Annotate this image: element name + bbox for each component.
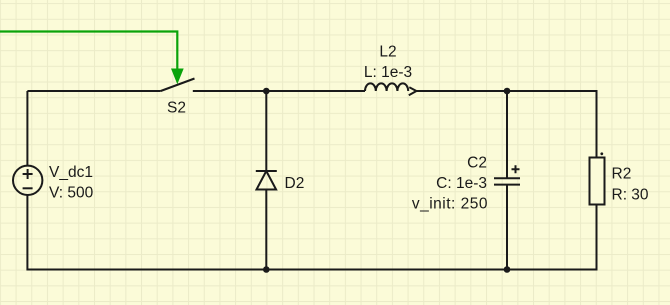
wire: top bus from V_dc1 to S2 left contact	[27, 90, 160, 92]
wire: V_dc1 bottom lead	[26, 195, 28, 271]
resistor R2	[590, 152, 605, 204]
node: junction D2/bottom	[263, 266, 270, 273]
wire: R2 to bottom bus	[596, 205, 598, 271]
svg-text:L: 1e-3: L: 1e-3	[364, 64, 412, 81]
wire: top junction down to D2	[265, 91, 267, 171]
svg-text:R: 30: R: 30	[612, 187, 649, 204]
wire: D2 to bottom bus	[265, 190, 267, 271]
inductor L2	[365, 83, 416, 95]
switch S2 (open blade)	[161, 79, 195, 92]
svg-text:S2: S2	[167, 100, 186, 117]
svg-text:R2: R2	[612, 166, 632, 183]
svg-text:V_dc1: V_dc1	[49, 164, 93, 181]
wire: S2 right contact to L2	[193, 90, 365, 92]
svg-text:L2: L2	[379, 44, 396, 61]
svg-text:C2: C2	[467, 154, 487, 171]
capacitor C2	[494, 165, 520, 184]
svg-text:v_init: 250: v_init: 250	[412, 196, 488, 213]
svg-text:D2: D2	[285, 175, 305, 192]
svg-text:V: 500: V: 500	[49, 184, 94, 201]
node: junction C2/bottom	[504, 266, 511, 273]
wire: top junction down to C2	[506, 91, 508, 178]
wire: green control signal to S2	[0, 32, 184, 85]
wire: bottom bus	[27, 269, 597, 271]
node: junction L2/C2 top	[504, 88, 511, 95]
svg-text:C: 1e-3: C: 1e-3	[436, 175, 487, 192]
diode D2	[256, 171, 277, 190]
voltage source V_dc1	[13, 166, 42, 195]
wire: right vertical down to R2	[596, 91, 598, 158]
node: junction S2/D2 top	[263, 88, 270, 95]
wire: V_dc1 top lead	[26, 91, 28, 166]
wire: L2 to top-right corner	[416, 90, 598, 92]
wire: C2 to bottom bus	[506, 185, 508, 271]
